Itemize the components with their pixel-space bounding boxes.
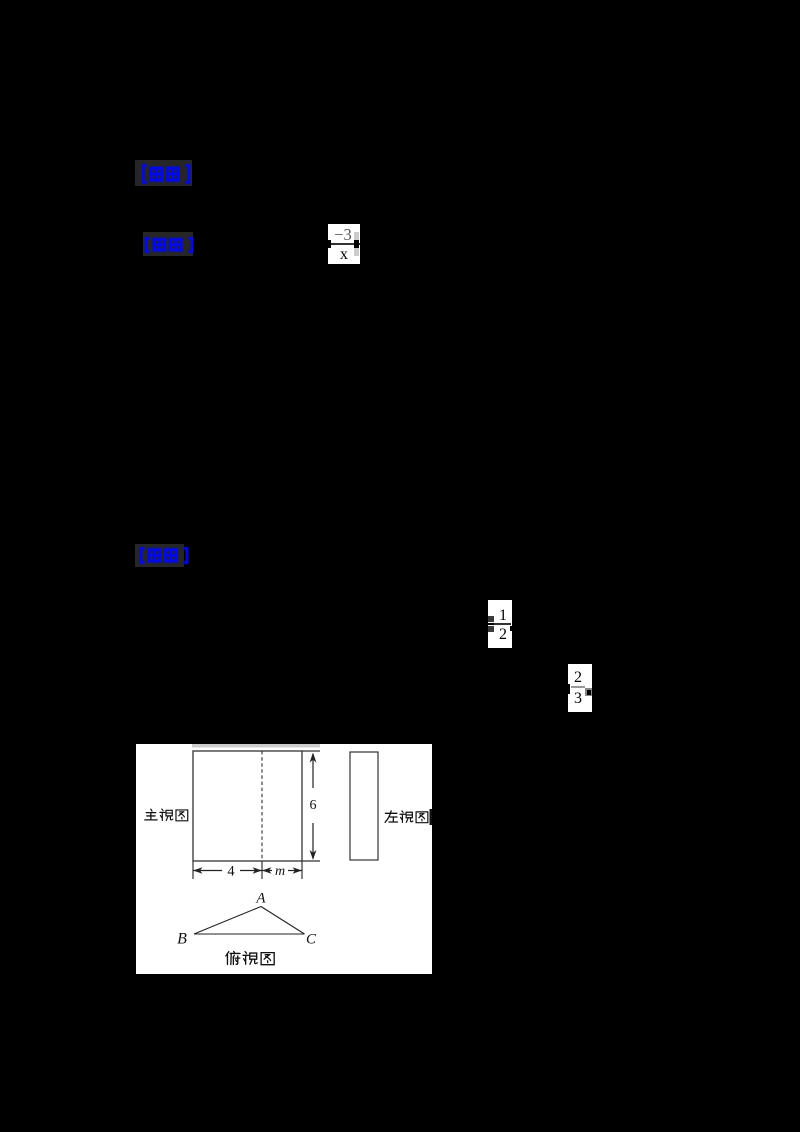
extension below dashed line (261, 861, 263, 879)
equation image 1/2 (488, 600, 512, 648)
arrow up (310, 753, 317, 763)
denominator 2 (491, 626, 515, 644)
bottom dimension line segment a (193, 870, 222, 872)
triangle side AC (261, 907, 305, 935)
extension below right edge (301, 861, 303, 879)
label 主视图 (145, 809, 157, 820)
vertical dimension line upper (312, 754, 314, 788)
gray strip artifact at top (192, 744, 320, 748)
white background of figure (136, 744, 432, 974)
equals mark left of fraction (327, 240, 331, 248)
equals stub left (486, 623, 494, 625)
triangle side BC (194, 933, 305, 935)
left bracket (141, 548, 145, 562)
dense char 2 (166, 167, 180, 182)
left bracket (146, 238, 150, 251)
equals blob lower (488, 626, 494, 632)
right bracket (183, 548, 187, 562)
gray artifact top right (354, 232, 359, 240)
dashed vertical line (261, 751, 263, 861)
right bracket (188, 238, 192, 251)
highlight bar 2 (143, 232, 193, 256)
fraction bar 2 (488, 623, 511, 625)
bottom dimension line segment c (262, 870, 272, 872)
numerator 1 (491, 607, 515, 625)
dense char 2 (169, 239, 183, 252)
equals blob upper (488, 616, 494, 622)
left bracket (143, 166, 147, 183)
right edge mark (510, 626, 512, 631)
right bracket (185, 166, 189, 183)
svg-text:6: 6 (310, 798, 317, 813)
arrow left from divider (262, 867, 272, 873)
triangle side AB (194, 907, 261, 935)
top edge extension (302, 750, 320, 752)
svg-text:C: C (306, 932, 317, 948)
blue marker 1 (141, 164, 191, 184)
dense char 1 (152, 239, 166, 252)
extension below left edge (192, 861, 194, 879)
dense char 1 (149, 167, 163, 182)
denominator 3 (566, 690, 590, 708)
dense char 1 (147, 549, 161, 563)
black mark right of fraction bar (354, 240, 359, 248)
svg-text:B: B (177, 931, 187, 948)
bottom dimension line segment d (288, 870, 302, 872)
black notch left edge (567, 684, 570, 694)
arrow right into divider (253, 867, 263, 873)
label 俯视图 (226, 951, 240, 964)
arrow left end (193, 867, 203, 873)
blue marker 2 (144, 237, 194, 253)
bottom dimension line segment b (240, 870, 262, 872)
equation image 2/3 (568, 664, 592, 712)
black bar right edge (430, 809, 433, 825)
black center of artifact (587, 690, 591, 695)
bottom edge extension (302, 860, 320, 862)
blue marker 3 (139, 547, 189, 564)
front view square (193, 751, 302, 861)
denominator x (328, 246, 360, 264)
fraction bar 1 (328, 243, 360, 245)
numerator 2 (566, 669, 590, 687)
svg-text:4: 4 (227, 864, 235, 880)
equation image y=-3/x (328, 224, 360, 264)
dense char 2 (164, 549, 178, 563)
highlight bar 3 (135, 544, 184, 567)
gray artifact bottom right (354, 248, 359, 256)
arrow down (310, 850, 317, 860)
arrow right end (293, 867, 303, 873)
side view rectangle (350, 752, 378, 860)
highlight bar 1 (135, 160, 192, 186)
figure: three views image (136, 744, 432, 974)
gray square artifact right (585, 688, 592, 696)
svg-text:m: m (275, 864, 285, 879)
vertical dimension line lower (312, 823, 314, 858)
numerator -3 (327, 225, 359, 245)
svg-text:A: A (255, 891, 266, 907)
fraction bar 3 (571, 686, 585, 688)
label 左视图 (385, 811, 398, 822)
